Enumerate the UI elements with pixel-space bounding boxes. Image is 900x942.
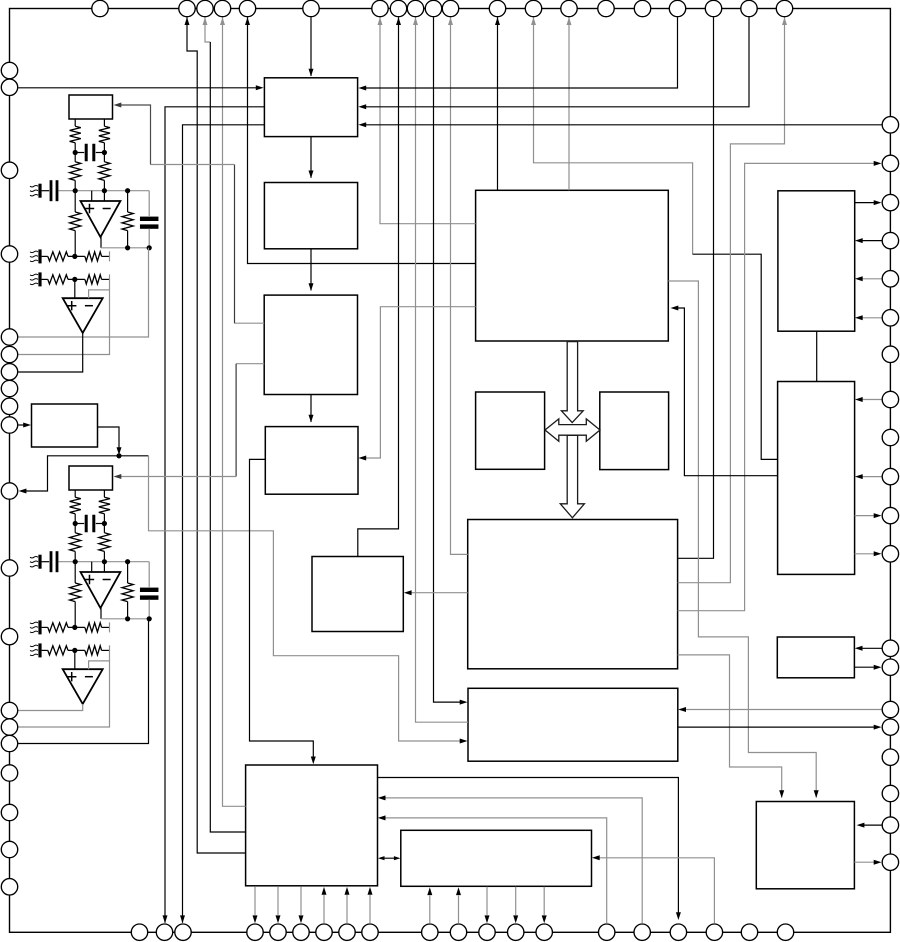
- junction node dot: [116, 453, 121, 458]
- arrowhead into U2 left: [23, 423, 31, 428]
- arrowhead into U9 right at 818: [378, 815, 386, 820]
- block U11 RAM: [476, 392, 545, 469]
- wire X1 stubs from box: [75, 119, 104, 126]
- wire X1 fb column: [127, 191, 129, 248]
- wire U7 to U9: [250, 459, 314, 761]
- wire pin T11 to U13: [451, 17, 468, 554]
- arrowhead at bottom pin B2: [163, 915, 168, 923]
- pin L16: [1, 735, 17, 751]
- pin T18: [705, 0, 721, 16]
- pin B7: [316, 924, 332, 940]
- ground X1 input: [30, 184, 42, 198]
- wire X2 minus elbow op2: [89, 661, 110, 669]
- bus arrow horizontal between U11 and U12: [545, 419, 600, 441]
- pin R6: [882, 310, 898, 326]
- pin B14: [536, 924, 552, 940]
- pin B12: [479, 924, 495, 940]
- pin L19: [1, 841, 17, 857]
- block U16 oscillator: [778, 191, 855, 331]
- wire pin T13 to U17 upper: [534, 17, 693, 254]
- resistor X1R2: [99, 126, 110, 143]
- block U6 processor: [264, 295, 357, 394]
- pin L6: [1, 346, 17, 362]
- wire X2 left column low: [74, 602, 76, 628]
- resistor X1R8a: [48, 275, 68, 284]
- pin T14: [561, 0, 577, 16]
- pin L9: [1, 398, 17, 414]
- wire X1 minus elbow op2: [89, 290, 110, 298]
- capacitor X2C2 input: [42, 551, 59, 572]
- wire pin T19 to U4: [362, 17, 749, 107]
- arrowhead into U5 top: [309, 171, 314, 179]
- net junction to pin L11: [22, 456, 149, 491]
- wire bottom pin B8 to U9: [346, 895, 348, 923]
- wire X1 op2 output to pin L7: [18, 333, 83, 372]
- arrowhead into U7 top: [309, 415, 314, 423]
- wire X1 input node line: [58, 180, 149, 190]
- resistor X2R4: [99, 533, 110, 552]
- resistor X2R2: [99, 497, 110, 514]
- pin B1: [131, 924, 147, 940]
- wire X1 op1 output: [100, 237, 102, 248]
- arrowhead at right pin R14: [874, 665, 882, 670]
- wire pin T14 to U10 top: [568, 17, 570, 190]
- wire U2 to junction: [98, 427, 120, 452]
- op-amp X1A1: [81, 201, 121, 237]
- pin L2: [1, 79, 17, 95]
- pin R9: [882, 429, 898, 445]
- arrowhead into junction node: [117, 447, 122, 455]
- capacitor X1C3: [140, 191, 159, 248]
- pin B20: [777, 924, 793, 940]
- pin T8: [390, 0, 406, 16]
- pin T17: [669, 0, 685, 16]
- resistor X2R8b: [85, 646, 102, 655]
- pin T2: [179, 0, 195, 16]
- wire U9 to bottom pin B5: [277, 886, 279, 915]
- wire bottom pin B7 to U9: [323, 895, 325, 923]
- arrowhead at pin T2: [185, 17, 190, 25]
- resistor X1R7a: [48, 252, 68, 261]
- block U2 bias: [32, 404, 98, 447]
- block U18 regulator: [777, 637, 854, 678]
- wire X1 op1 plus drop: [91, 191, 93, 201]
- wire right pin R1 to U4: [362, 124, 882, 126]
- wire X2 row7 right: [102, 626, 110, 628]
- wire bottom pin B9 to U9: [369, 895, 371, 923]
- arrowhead at right pin R2: [874, 161, 882, 166]
- wire X2 row7 left: [42, 626, 48, 628]
- pin L15: [1, 719, 17, 735]
- pin R15: [882, 701, 898, 717]
- arrowhead into U4 right at 88: [358, 86, 366, 91]
- arrowhead at pin T14: [567, 17, 572, 25]
- node X1 out cap: [147, 245, 152, 250]
- block U12 ROM: [600, 392, 669, 470]
- arrowhead at pin T5: [245, 17, 250, 25]
- arrowhead at pin T8: [396, 17, 401, 25]
- wire right pin R13 to U18: [858, 647, 882, 649]
- pin T12: [489, 0, 505, 16]
- wire X1 to cap bridge: [75, 143, 104, 162]
- wire X2 op1 output: [100, 608, 102, 619]
- node X1 bridge left: [73, 150, 78, 155]
- capacitor X1C2 input: [42, 180, 59, 201]
- pin L11: [1, 483, 17, 499]
- pin B2: [156, 924, 172, 940]
- pin R10: [882, 468, 898, 484]
- resistor X2R3: [70, 533, 81, 552]
- block U13 DSP core: [468, 520, 678, 669]
- net U6 to U1 vertical: [234, 165, 236, 324]
- capacitor X1C1 bridge: [75, 144, 104, 162]
- wire U9 to bottom pin B17: [377, 778, 678, 918]
- arrowhead into U9 bottom at x=347: [345, 887, 350, 895]
- pin R12: [882, 546, 898, 562]
- pin R13: [882, 640, 898, 656]
- wire U15 to bottom pin B13: [515, 887, 517, 915]
- pin T5: [239, 0, 255, 16]
- wire pin T20 to U13: [678, 17, 785, 583]
- pin B16: [634, 924, 650, 940]
- arrowhead into U19 right: [857, 823, 865, 828]
- wire U10 to U7: [362, 307, 476, 458]
- pin B4: [247, 924, 263, 940]
- node X1 node line right: [102, 188, 107, 193]
- pin R3: [882, 194, 898, 210]
- pin T4: [214, 0, 230, 16]
- arrowhead at right pin R20: [874, 860, 882, 865]
- arrowhead at pin T7: [378, 17, 383, 25]
- capacitor X2C3: [140, 562, 159, 619]
- wire X1 row7 right: [102, 255, 110, 257]
- node X2 node line fb: [125, 559, 130, 564]
- bus arrow from U10 down: [561, 342, 583, 423]
- pin B10: [422, 924, 438, 940]
- pin B11: [450, 924, 466, 940]
- wire U17 to right pin R11: [855, 515, 878, 517]
- wire X2 plus drop op2: [74, 650, 76, 669]
- block U3 reference generator: [69, 466, 113, 490]
- pin L1: [1, 62, 17, 78]
- resistor X1R6 feedback: [122, 212, 133, 231]
- arrowhead into U4 left at 88: [256, 85, 264, 90]
- pin B18: [706, 924, 722, 940]
- wire right pin R19 to U19: [860, 824, 882, 826]
- arrowhead at right pin R12: [874, 551, 882, 556]
- resistor X1R8b: [85, 275, 102, 284]
- wire bottom pin B18 to U15: [595, 858, 714, 923]
- resistor X2R6 feedback: [122, 583, 133, 602]
- wire right pin R4 to U16: [858, 240, 882, 242]
- wire X2 row7 mid: [68, 626, 85, 628]
- arrowhead at pin L11: [19, 489, 27, 494]
- arrowhead at pin T4: [220, 17, 225, 25]
- pin L5: [1, 329, 17, 345]
- pin B8: [339, 924, 355, 940]
- block U5 decoder: [264, 183, 357, 249]
- wire U10 to U19 right arrow: [668, 281, 816, 798]
- node X2 node line left: [73, 559, 78, 564]
- net U6 to U1 elbow: [117, 105, 151, 165]
- wire right pin R5 to U16: [858, 278, 882, 280]
- node X1 node line left: [73, 188, 78, 193]
- wire X2 input node line: [58, 551, 149, 561]
- wire U5 to U6: [310, 249, 312, 291]
- net U6 to U3 vertical: [235, 364, 237, 477]
- arrowhead at pin T3: [203, 17, 208, 25]
- wire pin T13 to U17 lower: [693, 254, 778, 459]
- pin T15: [598, 0, 614, 16]
- pin T7: [372, 0, 388, 16]
- wire pin T4 to U9: [223, 17, 246, 806]
- arrowhead into U15 left at 858: [394, 856, 401, 860]
- wire X1 output node line: [101, 247, 149, 249]
- wire U18 to right pin R14: [854, 666, 878, 668]
- arrowhead into U7 right: [358, 456, 366, 461]
- wire pin T8 to U8 top: [358, 17, 399, 556]
- bus arrow down into U13: [560, 435, 584, 517]
- wire U14 to right pin R16: [678, 726, 878, 728]
- wire right pin R8 to U17: [858, 399, 882, 401]
- double arrow U9 to U15: [380, 857, 398, 859]
- wire pin L10 to U2: [18, 424, 28, 426]
- pin T19: [741, 0, 757, 16]
- net U6 to U3 horizontal: [117, 476, 236, 478]
- wire pin T12 to U10 top: [497, 17, 499, 190]
- wire U17 to U10: [674, 308, 778, 476]
- pin R5: [882, 271, 898, 287]
- node X2 row7: [72, 625, 77, 630]
- capacitor X2C1 bridge: [75, 515, 104, 533]
- wire X2 row8 mid: [68, 649, 85, 651]
- arrowhead into U15 bottom at x=458.5: [456, 887, 461, 895]
- wire X2 op1 plus drop: [91, 562, 93, 572]
- wire U15 to bottom pin B12: [486, 887, 488, 915]
- wire U17 to right pin R12: [855, 553, 878, 555]
- resistor X1R3: [70, 162, 81, 181]
- wire X1 left column: [74, 191, 76, 212]
- wire pin T3 to U9 lower: [210, 42, 245, 832]
- pin L12: [1, 560, 17, 576]
- arrowhead at pin T11: [448, 17, 453, 25]
- block U4 input interface: [264, 78, 357, 137]
- arrowhead into U16 right at 318: [855, 315, 863, 320]
- wire U19 to right pin R20: [854, 861, 878, 863]
- arrowhead at bottom pin B6: [299, 915, 304, 923]
- wire U4 left to pin B2 bottom: [165, 107, 264, 923]
- pin R14: [882, 659, 898, 675]
- pin L3: [1, 162, 17, 178]
- pin L7: [1, 364, 17, 380]
- op-amp X1A2: [63, 298, 103, 333]
- pin T20: [776, 0, 792, 16]
- arrowhead at bottom pin B17: [676, 912, 681, 920]
- pin R18: [882, 785, 898, 801]
- wire U9 to bottom pin B6: [300, 886, 302, 915]
- pin L18: [1, 804, 17, 820]
- pin T13: [525, 0, 541, 16]
- arrowhead at pin T9: [413, 17, 418, 25]
- arrowhead at bottom pin B14: [542, 915, 547, 923]
- wire pin T17 to U4: [362, 17, 678, 88]
- arrowhead into U4 right at 124: [358, 122, 366, 127]
- arrowhead into U4 right at 106: [358, 104, 366, 109]
- resistor X2R7a: [48, 623, 68, 632]
- pin B13: [508, 924, 524, 940]
- pin R8: [882, 391, 898, 407]
- pin L13: [1, 628, 17, 644]
- arrowhead into U1 right: [114, 103, 122, 108]
- pin L8: [1, 380, 17, 396]
- net junction to U14: [149, 456, 465, 741]
- pin L14: [1, 702, 17, 718]
- wire X1 plus drop op2: [74, 279, 76, 298]
- pin L20: [1, 879, 17, 895]
- terminal X2 row7 tick: [109, 622, 111, 632]
- wire bottom pin B11 to U15: [458, 896, 460, 924]
- arrowhead at pin T13: [531, 17, 536, 25]
- wire U9 to bottom pin B4: [254, 886, 256, 915]
- wire X2 fb column: [127, 562, 129, 619]
- node X2 out fb: [125, 616, 130, 621]
- wire X1 row8 left: [42, 278, 48, 280]
- wire pin T3 to U9 upper: [205, 17, 210, 42]
- arrowhead at bottom pin B12: [485, 915, 490, 923]
- pin R2: [882, 155, 898, 171]
- block U8 control: [312, 557, 403, 632]
- wire X1 row8 right: [102, 278, 110, 280]
- wire X1 cap node to pin L5: [18, 248, 148, 337]
- arrowhead at bottom pin B5: [276, 915, 281, 923]
- pin B5: [270, 924, 286, 940]
- wire U13 to U19 left arrow: [678, 655, 782, 798]
- node X2 bridge left: [73, 521, 78, 526]
- block U1 reference generator: [69, 95, 113, 119]
- arrowhead into U17 right at 477: [855, 474, 863, 479]
- pin T16: [634, 0, 650, 16]
- ground X1 row7: [30, 249, 42, 263]
- arrowhead into U15 bottom at x=429.8: [427, 887, 432, 895]
- net U6 to U3 entry: [236, 363, 264, 365]
- arrowhead into U16 right at 279: [855, 276, 863, 281]
- pin R16: [882, 719, 898, 735]
- wire X2 left column: [74, 562, 76, 583]
- pin R1: [882, 117, 898, 133]
- arrowhead into U19 top right: [814, 790, 819, 798]
- arrowhead at pin T20: [782, 17, 787, 25]
- pin R7: [882, 346, 898, 362]
- resistor X1R1: [70, 126, 81, 143]
- pin T3: [197, 0, 213, 16]
- wire bottom pin B15 to U9: [381, 818, 607, 923]
- op-amp X2A1: [81, 572, 121, 608]
- block U17 PLL: [778, 382, 855, 575]
- node X1 row7: [72, 254, 77, 259]
- net U6 to U1 horizontal: [151, 164, 235, 166]
- resistor X2R7b: [85, 623, 102, 632]
- pin B17: [670, 924, 686, 940]
- wire right pin R15 to U14: [682, 709, 883, 711]
- arrowhead into U9 top: [311, 757, 316, 765]
- wire pin T2 to U9: [187, 17, 246, 853]
- resistor X2R5: [70, 583, 81, 602]
- arrowhead at bottom pin B3: [180, 915, 185, 923]
- wire U15 to bottom pin B14: [543, 887, 545, 915]
- terminal X1 row7 tick: [109, 251, 111, 261]
- node X2 node line right: [102, 559, 107, 564]
- resistor X1R4: [99, 162, 110, 181]
- wire pin T18 to U13: [678, 17, 714, 558]
- block U10 main logic: [476, 190, 669, 341]
- arrowhead into U4 top: [309, 69, 314, 77]
- pin L17: [1, 765, 17, 781]
- arrowhead into U6 top: [309, 283, 314, 291]
- block U15 bus driver: [401, 830, 592, 886]
- wire X2 row8 left: [42, 649, 48, 651]
- resistor X1R5: [70, 212, 81, 231]
- arrowhead into U8 right: [404, 590, 412, 595]
- arrowhead into U14 right: [678, 707, 686, 712]
- arrowhead at right pin R3: [874, 200, 882, 205]
- wire pin T6 to U4: [310, 17, 312, 76]
- wire pin L2 to U4 left: [18, 87, 260, 89]
- wire U4 left to pin B3 bottom: [183, 125, 265, 923]
- wire U13 to U8: [407, 592, 467, 594]
- arrowhead at right pin R16: [874, 725, 882, 730]
- pin T1: [92, 0, 108, 16]
- wire U16 to right pin R3: [855, 202, 878, 204]
- pin R17: [882, 749, 898, 765]
- wire X2 op1 minus drop: [103, 562, 105, 572]
- node X1 row8: [72, 277, 77, 282]
- wire X2 cap node to pin L16: [18, 619, 148, 744]
- pin R4: [882, 232, 898, 248]
- block U19 output driver: [756, 802, 854, 889]
- wire X2 row8 right: [102, 649, 110, 651]
- node X2 row8: [72, 648, 77, 653]
- pin B15: [599, 924, 615, 940]
- pin L10: [1, 417, 17, 433]
- resistor X2R1: [70, 497, 81, 514]
- pin B3: [175, 924, 191, 940]
- wire U6 to U7: [310, 395, 312, 423]
- node X2 bridge right: [102, 521, 107, 526]
- pin B6: [293, 924, 309, 940]
- arrowhead into U14 left at 741: [460, 739, 468, 744]
- pin R20: [882, 854, 898, 870]
- node X1 out fb: [125, 245, 130, 250]
- wire X1 op1 minus drop: [103, 191, 105, 201]
- wire U4 to U5: [310, 137, 312, 178]
- block U7 filter: [265, 427, 358, 495]
- wire X1 left column low: [74, 231, 76, 257]
- ground X2 input: [30, 555, 42, 569]
- block U9 port controller: [246, 765, 378, 886]
- node X1 node line fb: [125, 188, 130, 193]
- resistor X1R7b: [85, 252, 102, 261]
- arrowhead into U18 right: [855, 646, 863, 651]
- net U6 to U1 entry: [235, 322, 265, 324]
- wire X2 stubs from box: [75, 490, 104, 497]
- pin B19: [741, 924, 757, 940]
- arrowhead into U3 right: [114, 474, 122, 479]
- wire U13 to right pin R2: [678, 163, 878, 610]
- wire U16 to U17 connector: [816, 331, 818, 381]
- pin T11: [442, 0, 458, 16]
- pin B9: [362, 924, 378, 940]
- wire X2 to cap bridge: [75, 514, 104, 533]
